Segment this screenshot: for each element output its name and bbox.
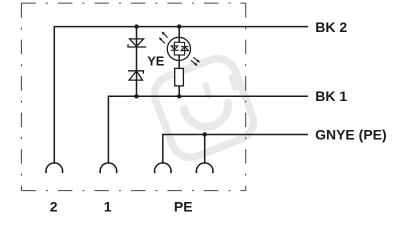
LED emission arrows upper-left [159, 32, 168, 44]
svg-text:GNYE (PE): GNYE (PE) [315, 126, 387, 142]
wire branch B vertical (LED + resistor) [178, 27, 180, 43]
contact PE b (socket arc) [196, 163, 213, 173]
contact 1 (socket arc) [100, 163, 117, 173]
zener suppressor diode V1 (top, cathode down) [128, 39, 146, 47]
junction dot node BK2/branch B [177, 24, 181, 28]
svg-text:2: 2 [50, 198, 58, 214]
LED chip left (cathode down) [171, 46, 178, 50]
contact 2 (socket arc) [46, 163, 63, 173]
LED chip right (cathode up) [181, 46, 189, 48]
LED indicator U1 (dual anti-parallel LED, yellow) [167, 37, 190, 60]
zener suppressor diode V2 (bottom, cathode up) [128, 71, 143, 80]
wire PE second contact drop [204, 135, 206, 164]
watermark logo (light gray smiling plug) [149, 53, 259, 163]
wire BK1 net: horizontal middle wire [108, 96, 308, 163]
junction dot node GNYE/PE contact 2 [203, 132, 207, 136]
LED emission arrows lower-right [191, 57, 200, 66]
svg-text:1: 1 [104, 198, 112, 214]
svg-text:YE: YE [147, 53, 165, 68]
wire branch A vertical (suppressor diodes) [136, 27, 138, 97]
junction dot node BK1/branch B [177, 94, 181, 98]
svg-text:BK 1: BK 1 [315, 88, 347, 104]
resistor R1 [175, 68, 184, 86]
junction dot node BK1/branch A [134, 94, 138, 98]
svg-text:PE: PE [174, 198, 193, 214]
wire BK2 net: horizontal top wire [54, 27, 308, 164]
wire GNYE (PE) net [163, 135, 308, 164]
connector body outline (dash-dot border) [21, 3, 245, 191]
junction dot node BK2/branch A [134, 24, 138, 28]
contact PE a (socket arc) [154, 163, 171, 173]
svg-text:BK 2: BK 2 [315, 19, 347, 35]
